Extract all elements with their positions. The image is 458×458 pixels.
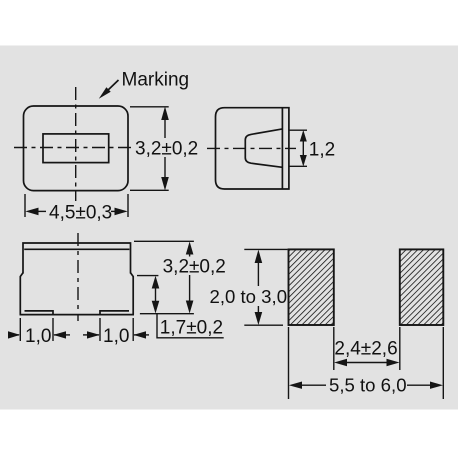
svg-text:1,0: 1,0 bbox=[25, 326, 51, 347]
svg-text:1,2: 1,2 bbox=[309, 140, 335, 161]
svg-text:3,2±0,2: 3,2±0,2 bbox=[135, 139, 198, 160]
svg-text:2,0 to 3,0: 2,0 to 3,0 bbox=[210, 286, 288, 307]
svg-text:2,4±2,6: 2,4±2,6 bbox=[334, 339, 397, 360]
svg-text:3,2±0,2: 3,2±0,2 bbox=[163, 257, 226, 278]
svg-text:1,7±0,2: 1,7±0,2 bbox=[160, 318, 223, 339]
svg-text:1,0: 1,0 bbox=[103, 326, 129, 347]
svg-text:4,5±0,3: 4,5±0,3 bbox=[49, 202, 112, 223]
svg-text:Marking: Marking bbox=[122, 70, 190, 91]
svg-text:5,5 to 6,0: 5,5 to 6,0 bbox=[329, 375, 407, 396]
